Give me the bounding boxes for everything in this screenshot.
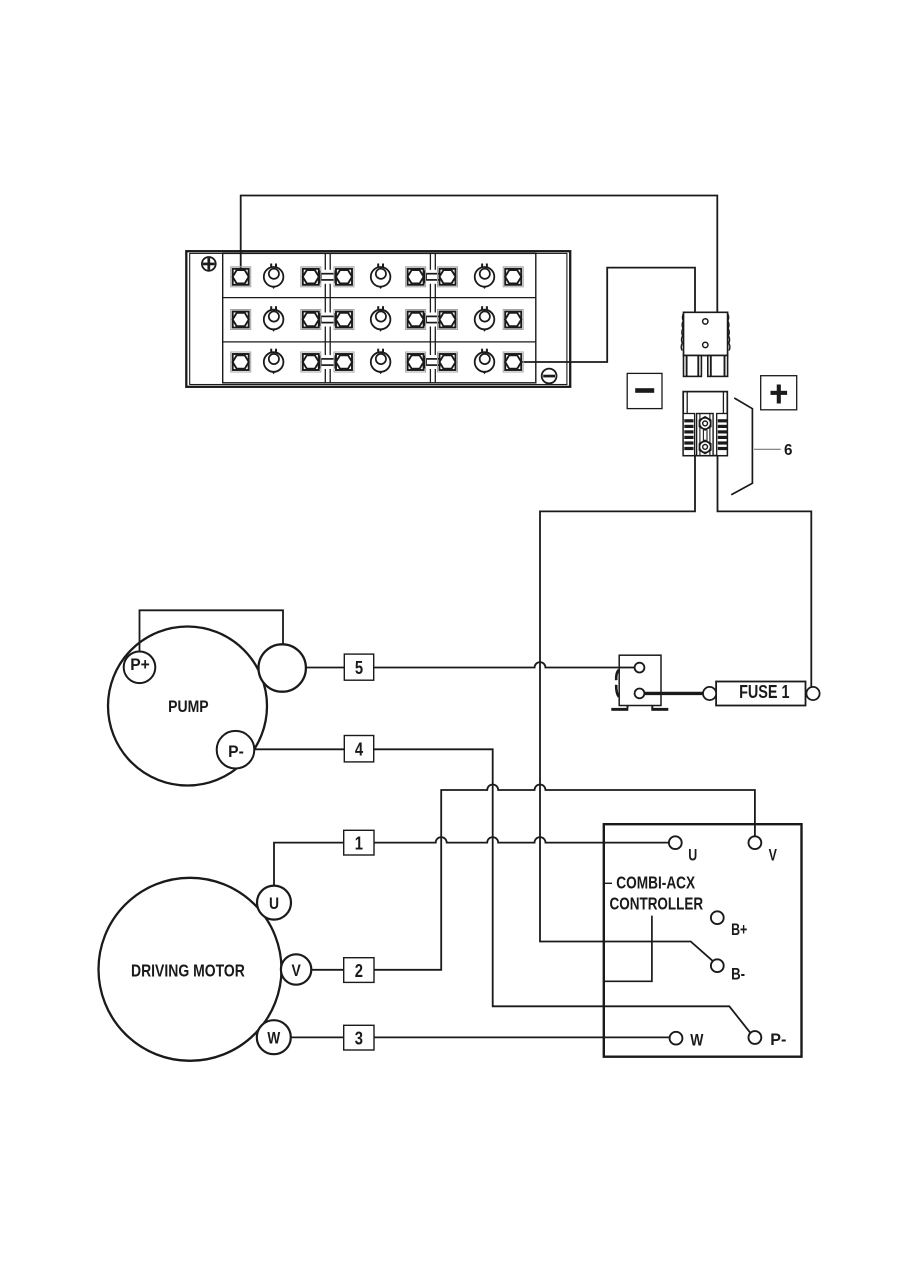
controller terminal W xyxy=(670,1031,704,1050)
contactor mounting feet xyxy=(611,706,668,711)
contactor coil terminal xyxy=(635,663,645,673)
node 3 box xyxy=(344,1025,374,1050)
contactor output terminal xyxy=(635,689,645,699)
battery row 3 cell post terminals xyxy=(231,352,524,372)
controller terminal P- xyxy=(749,1030,787,1049)
wire pump P- to node 4 xyxy=(254,748,344,750)
svg-text:COMBI-ACX: COMBI-ACX xyxy=(616,874,695,893)
motor terminal W xyxy=(257,1020,291,1054)
node 1 box xyxy=(344,830,374,855)
svg-text:P+: P+ xyxy=(130,655,150,674)
controller name leader tick xyxy=(604,882,612,884)
node 2 box xyxy=(344,958,374,983)
pump stud terminal xyxy=(259,644,306,691)
wire battery plus terminal to connector right pin xyxy=(241,196,718,314)
battery cells compartment xyxy=(223,253,536,382)
battery row 1 cell post terminals xyxy=(231,267,524,287)
svg-text:1: 1 xyxy=(355,833,363,854)
wire node 4 to controller P- xyxy=(374,749,751,1033)
controller terminal B+ xyxy=(711,911,748,939)
svg-text:P-: P- xyxy=(228,743,244,761)
leader line to label 6 xyxy=(754,448,781,450)
svg-text:CONTROLLER: CONTROLLER xyxy=(609,895,703,914)
wire connector right pin to FUSE 1 xyxy=(718,456,812,687)
fuse right terminal xyxy=(806,687,819,700)
controller terminal V xyxy=(749,836,778,865)
wire node 5 to contactor coil terminal (hop over vertical) xyxy=(374,662,635,667)
svg-text:PUMP: PUMP xyxy=(168,698,208,716)
svg-text:DRIVING MOTOR: DRIVING MOTOR xyxy=(131,961,245,981)
wire motor V to node 2 xyxy=(311,969,344,971)
heavy cable contactor to fuse xyxy=(644,692,704,695)
pump terminal P- xyxy=(217,731,255,769)
svg-text:U: U xyxy=(269,895,279,914)
battery row 3 vent caps xyxy=(264,349,495,375)
COMBI-ACX controller U100 enclosure xyxy=(604,824,802,1056)
wire node 2 to controller V (hops over two verticals) xyxy=(374,785,755,970)
wire node 1 to controller U (hops over three verticals) xyxy=(374,837,669,842)
svg-text:B-: B- xyxy=(731,965,745,984)
controller internal jumper wire xyxy=(605,916,652,982)
wire node 3 to controller W xyxy=(374,1036,670,1038)
svg-text:V: V xyxy=(769,847,777,865)
svg-text:4: 4 xyxy=(355,739,364,760)
wire battery minus terminal to connector left pin xyxy=(521,268,695,362)
battery row 1 vent caps xyxy=(264,264,495,290)
svg-text:3: 3 xyxy=(355,1028,363,1049)
battery connector receptacle lower half xyxy=(683,392,727,456)
battery row 2 vent caps xyxy=(264,306,495,332)
controller terminal B- xyxy=(711,959,745,984)
minus polarity label box xyxy=(627,373,662,408)
svg-text:U: U xyxy=(688,847,697,865)
svg-text:FUSE 1: FUSE 1 xyxy=(739,681,789,702)
battery plus polarity mark xyxy=(202,257,216,271)
wire motor U to node 1 xyxy=(274,843,344,886)
battery row 2 cell post terminals xyxy=(231,310,524,330)
driving motor M1 body xyxy=(99,878,282,1061)
wire pump P+ bridge to pump stud xyxy=(140,610,284,652)
svg-text:P-: P- xyxy=(770,1030,786,1049)
motor terminal U xyxy=(257,886,291,920)
battery connector plug upper half xyxy=(681,312,730,376)
pump terminal P+ xyxy=(124,652,156,684)
svg-text:2: 2 xyxy=(355,960,363,981)
motor terminal V xyxy=(281,954,311,984)
svg-text:5: 5 xyxy=(355,657,363,678)
battery row 2 inter-cell links xyxy=(317,313,443,327)
fuse left terminal xyxy=(703,687,716,700)
svg-text:6: 6 xyxy=(784,442,793,459)
svg-text:W: W xyxy=(690,1031,703,1050)
wire connector left pin to controller B- xyxy=(540,456,713,962)
plus polarity label box xyxy=(761,376,797,410)
battery row 1 inter-cell links xyxy=(317,270,443,284)
node 5 box xyxy=(344,654,373,680)
fuse F1 body xyxy=(716,682,805,706)
line contactor K1 body xyxy=(616,655,661,705)
battery minus polarity mark xyxy=(542,369,557,384)
pump motor M2 body xyxy=(108,627,267,786)
battery case inner border xyxy=(190,253,567,384)
wire pump stud to node 5 xyxy=(306,667,344,669)
brace callout for item 6 xyxy=(731,398,752,495)
node 4 box xyxy=(344,736,373,762)
controller terminal U xyxy=(669,836,697,865)
svg-text:W: W xyxy=(267,1029,280,1048)
battery row 3 inter-cell links xyxy=(317,355,443,369)
wire motor W to node 3 xyxy=(291,1036,344,1038)
svg-text:B+: B+ xyxy=(731,921,747,939)
battery BT1 case outer border xyxy=(186,251,570,387)
svg-text:V: V xyxy=(291,962,301,981)
